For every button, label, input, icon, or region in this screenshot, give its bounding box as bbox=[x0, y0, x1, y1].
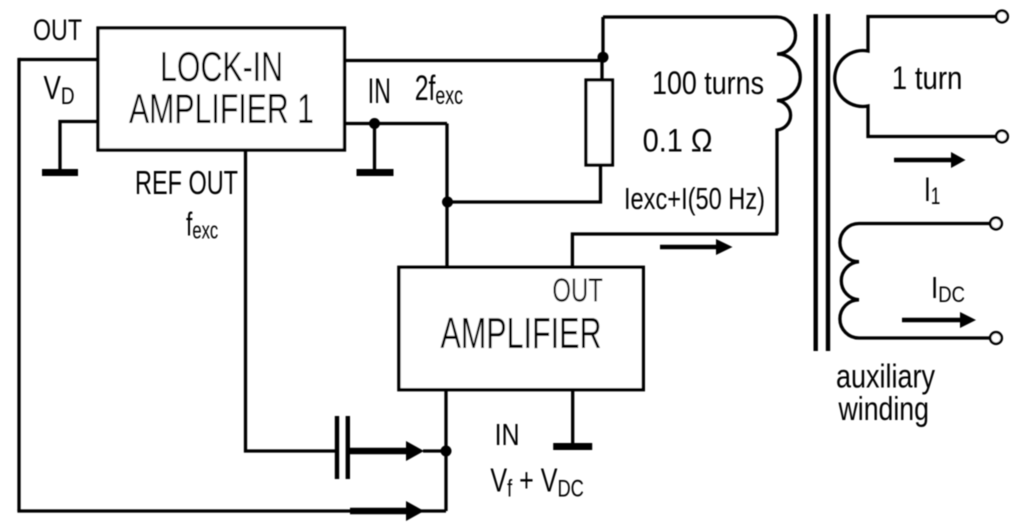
wire amplifier ground stem bbox=[571, 390, 574, 443]
svg-text:0.1 Ω: 0.1 Ω bbox=[643, 123, 713, 159]
ground below amplifier bbox=[553, 443, 592, 450]
wire up and over to primary coil bbox=[601, 17, 604, 58]
wire thick arrow from capacitor to node bbox=[350, 448, 406, 455]
svg-text:LOCK-IN: LOCK-IN bbox=[160, 43, 283, 90]
node at amplifier IN bbox=[441, 446, 452, 457]
node at resistor top bbox=[598, 52, 609, 63]
wire amplifier OUT up to primary coil bbox=[572, 234, 778, 267]
junction node bbox=[442, 197, 453, 208]
svg-text:1 turn: 1 turn bbox=[892, 60, 963, 96]
resistor R1 0.1 ohm bbox=[586, 80, 613, 165]
label IDC bbox=[931, 271, 965, 307]
label VD bbox=[44, 70, 75, 109]
svg-text:OUT: OUT bbox=[33, 14, 82, 47]
svg-text:AMPLIFIER: AMPLIFIER bbox=[441, 309, 602, 358]
label fexc bbox=[186, 206, 218, 244]
wire junction to resistor bottom bbox=[448, 165, 601, 202]
svg-text:REF OUT: REF OUT bbox=[135, 164, 238, 201]
wire lock-in top right to resistor node bbox=[345, 59, 603, 62]
svg-text:winding: winding bbox=[838, 390, 929, 427]
node at lock-in IN bbox=[369, 118, 380, 129]
terminal top of auxiliary winding bbox=[990, 218, 1002, 230]
terminal bottom of auxiliary winding bbox=[990, 332, 1002, 344]
wire OUT from lock-in left edge to left rail bbox=[19, 58, 98, 61]
svg-text:auxiliary: auxiliary bbox=[836, 358, 935, 395]
lock-in amplifier box U1 bbox=[98, 28, 345, 150]
amplifier box U2 bbox=[399, 267, 643, 389]
svg-text:Iexc+I(50 Hz): Iexc+I(50 Hz) bbox=[624, 181, 765, 216]
transformer core line 2 bbox=[826, 14, 830, 351]
primary winding 100 turns bbox=[603, 17, 800, 234]
capacitor C1 plates bbox=[335, 416, 339, 479]
svg-text:IN: IN bbox=[495, 417, 520, 452]
svg-text:OUT: OUT bbox=[552, 271, 603, 308]
secondary winding 1 turn bbox=[835, 17, 1002, 137]
wire IN from lock-in right edge bbox=[345, 122, 447, 125]
wire stub to ground at IN bbox=[373, 124, 376, 170]
arrow IDC current direction bbox=[902, 318, 960, 323]
label 2fexc bbox=[415, 70, 463, 110]
svg-text:AMPLIFIER 1: AMPLIFIER 1 bbox=[129, 85, 314, 132]
wire resistor top lead bbox=[600, 57, 603, 80]
label Vf + VDC bbox=[490, 462, 583, 502]
transformer core line 1 bbox=[814, 14, 818, 351]
wire thick arrow on bottom wire bbox=[350, 508, 406, 515]
arrow I1 current direction bbox=[894, 158, 951, 163]
ground below IN bbox=[357, 169, 394, 176]
wire bottom horizontal to amplifier IN node bbox=[17, 509, 446, 512]
auxiliary winding bbox=[840, 224, 996, 339]
terminal top of 1 turn bbox=[996, 11, 1008, 23]
ground below VD bbox=[42, 169, 78, 176]
wire amplifier bottom-left lead to node bbox=[444, 390, 447, 511]
terminal bottom of 1 turn bbox=[996, 131, 1008, 143]
svg-text:100 turns: 100 turns bbox=[652, 65, 764, 101]
wire VD stub to ground bbox=[60, 122, 98, 170]
arrow Iexc current direction bbox=[660, 245, 716, 250]
wire REF OUT vertical down and right to capacitor bbox=[246, 151, 336, 451]
label I1 bbox=[924, 171, 940, 210]
wire left rail vertical bbox=[17, 58, 20, 511]
wire 2fexc vertical down to amplifier bbox=[445, 124, 448, 268]
svg-text:IN: IN bbox=[368, 72, 391, 111]
